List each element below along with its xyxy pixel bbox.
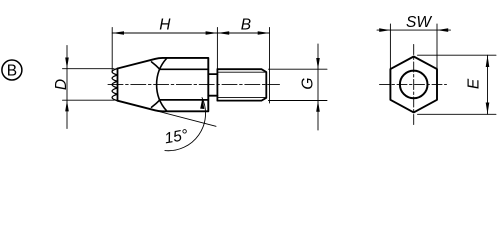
knurl face line [117, 69, 119, 101]
B dimension line [217, 32, 269, 34]
SW dimension line [377, 29, 451, 31]
thread root lines [218, 72, 266, 97]
G extension lines [269, 69, 328, 100]
chamfer hook bottom [152, 100, 160, 107]
svg-text:D: D [53, 79, 70, 90]
chamfer hook top [152, 62, 160, 69]
neck [208, 74, 217, 96]
thread crest [217, 69, 266, 100]
15 deg arc [165, 98, 206, 151]
svg-text:SW: SW [406, 14, 432, 31]
hex circle [400, 71, 428, 99]
15 deg extension line [118, 101, 217, 127]
E dimension line [487, 55, 489, 114]
15 deg arc arrowhead [200, 98, 204, 109]
hex centerlines [380, 83, 447, 85]
SW arrows (outside) [379, 28, 448, 32]
main view centerline [108, 84, 280, 86]
H dimension line [112, 32, 217, 34]
svg-text:G: G [299, 78, 316, 90]
svg-text:E: E [466, 78, 483, 89]
D arrows (outside) [65, 58, 69, 112]
H/B shared extension line [216, 28, 218, 69]
hex corner line bottom [160, 99, 209, 101]
SW extension lines [390, 24, 437, 69]
G dimension line [317, 44, 319, 130]
D dimension line [66, 46, 68, 129]
view label circle B [2, 60, 22, 80]
B extension line right [269, 28, 271, 104]
svg-text:H: H [159, 17, 171, 34]
G arrows (outside) [316, 58, 320, 112]
stud shoulder [216, 69, 218, 100]
E extension lines [418, 55, 497, 114]
H extension line left [111, 28, 113, 73]
knurl zigzag [112, 69, 117, 101]
D extension lines [63, 69, 115, 101]
svg-text:B: B [7, 63, 17, 80]
chamfer arc [157, 59, 167, 111]
hex corner line top [160, 68, 209, 70]
svg-text:B: B [241, 17, 251, 34]
hexagon [390, 57, 437, 113]
H arrows [112, 31, 217, 35]
svg-text:15°: 15° [163, 127, 189, 148]
B arrows [217, 31, 269, 35]
body outline [118, 58, 209, 111]
E arrows (inside pointing out) [486, 55, 490, 114]
